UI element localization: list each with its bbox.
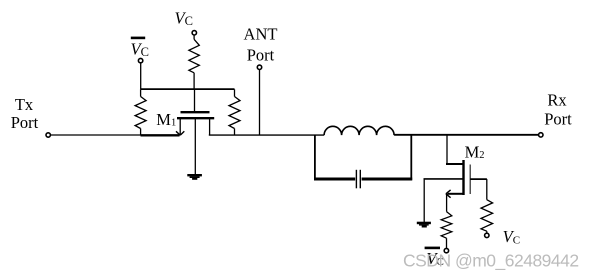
- svg-text:ANT: ANT: [244, 25, 278, 44]
- svg-text:Port: Port: [247, 46, 275, 65]
- svg-text:VC: VC: [503, 227, 520, 246]
- svg-text:Port: Port: [11, 113, 39, 132]
- svg-text:M1: M1: [156, 110, 176, 129]
- svg-text:Tx: Tx: [15, 95, 34, 114]
- svg-text:Rx: Rx: [547, 91, 567, 110]
- svg-text:VC: VC: [131, 40, 149, 59]
- svg-text:Port: Port: [544, 109, 572, 128]
- svg-text:M2: M2: [465, 143, 485, 162]
- svg-text:CSDN @m0_62489442: CSDN @m0_62489442: [403, 251, 579, 272]
- svg-text:VC: VC: [175, 8, 193, 27]
